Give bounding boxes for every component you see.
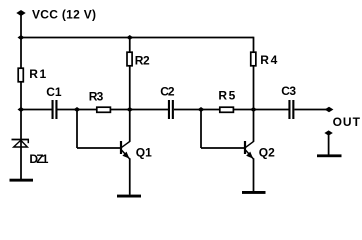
svg-text:Q2: Q2 <box>259 145 275 159</box>
wire VCC terminal to rail <box>20 14 22 38</box>
svg-text:R3: R3 <box>89 89 104 103</box>
resistor R2 <box>127 52 132 66</box>
resistor R1 <box>18 68 23 82</box>
wire C1 to R3 <box>58 109 97 111</box>
svg-text:R2: R2 <box>135 53 150 67</box>
wire base path Q1 horizontal <box>77 147 120 149</box>
node rail/R1 <box>18 35 25 40</box>
wire rail to R2 <box>129 38 131 52</box>
wire R1 to node <box>20 83 22 110</box>
wire base path Q2 vertical <box>200 110 202 149</box>
svg-text:OUT: OUT <box>333 115 361 129</box>
wire R2 to node <box>129 67 131 110</box>
wire R4 to node <box>253 67 255 110</box>
wire main line node to C1 <box>21 109 52 111</box>
ground Q1 <box>117 195 141 198</box>
ground DZ1 <box>10 179 34 182</box>
wire rail corner to R4 <box>253 37 255 52</box>
node R1/C1/DZ1 <box>18 107 25 112</box>
resistor R3 <box>97 107 111 112</box>
node R3/R2/C2/collector <box>126 107 133 112</box>
svg-text:R4: R4 <box>260 53 279 67</box>
capacitor C3 <box>288 100 290 119</box>
wire R3 to C2 <box>111 109 168 111</box>
node C1/R3/base <box>74 107 81 112</box>
wire VCC rail <box>21 37 254 39</box>
svg-text:VCC (12 V): VCC (12 V) <box>32 7 96 21</box>
svg-text:R5: R5 <box>218 89 237 103</box>
resistor R4 <box>251 52 256 66</box>
svg-text:Q1: Q1 <box>136 145 152 159</box>
wire R5 to C3 <box>234 109 289 111</box>
node rail/R2 <box>126 35 133 40</box>
wire ground terminal <box>328 134 330 155</box>
svg-text:R1: R1 <box>29 67 48 81</box>
node R5/R4/C3/collector <box>250 107 257 112</box>
wire C2 to R5 <box>174 109 220 111</box>
svg-text:C1: C1 <box>46 85 62 99</box>
wire base path Q1 vertical <box>76 110 78 149</box>
svg-text:C2: C2 <box>160 84 175 98</box>
node C2/R5/base <box>198 107 205 112</box>
transistor Q2 <box>245 110 254 192</box>
ground Q2 <box>242 191 266 194</box>
OUT terminal <box>325 107 334 113</box>
transistor Q1 <box>121 110 130 195</box>
VCC terminal <box>16 10 25 16</box>
ground OUT <box>317 154 342 157</box>
wire rail to R1 <box>20 38 22 68</box>
svg-text:C3: C3 <box>281 84 296 98</box>
capacitor C1 <box>52 100 54 119</box>
zener diode DZ1 <box>12 140 30 148</box>
wire C3 to OUT <box>295 109 327 111</box>
resistor R5 <box>220 107 234 112</box>
ground terminal below OUT <box>324 130 332 135</box>
capacitor C2 <box>168 100 170 119</box>
wire base path Q2 horizontal <box>201 147 244 149</box>
svg-text:DZ1: DZ1 <box>29 152 48 166</box>
wire node to ground (through DZ1) <box>20 110 22 180</box>
